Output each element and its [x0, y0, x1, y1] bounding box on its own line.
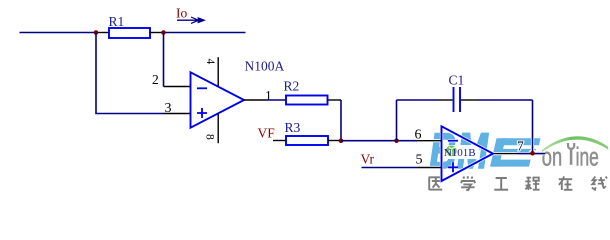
svg-text:R2: R2: [284, 79, 300, 94]
op-amp B minus symbol: [448, 140, 458, 142]
svg-text:C1: C1: [449, 73, 465, 88]
wire: C1 right pin: [461, 99, 477, 101]
wire: pin 5 black segment: [417, 167, 442, 169]
wire: top input horizontal: [20, 32, 97, 34]
wire: left branch down from node 1: [96, 33, 164, 114]
wire: feedback top left: [397, 99, 438, 101]
svg-text:N100A: N100A: [245, 59, 285, 74]
svg-text:3: 3: [165, 101, 172, 116]
svg-text:ine: ine: [576, 141, 599, 171]
watermark green swoosh arc: [542, 136, 609, 152]
wire: pin 3 black segment: [164, 113, 192, 115]
current arrow Io: [177, 17, 205, 23]
watermark chinese char 4 (cheng): [525, 177, 539, 190]
junction node R2/R3: [339, 138, 344, 143]
op-amp A minus symbol: [197, 87, 207, 89]
junction node right of R1: [161, 30, 166, 35]
wire: R1 right pin: [150, 32, 164, 34]
wire: pin 6 black segment: [417, 140, 442, 142]
svg-text:6: 6: [415, 128, 422, 143]
svg-text:8: 8: [204, 134, 216, 140]
op-amp U1 triangle N100A: [191, 72, 245, 127]
wire: R2 right pin: [328, 99, 342, 101]
svg-text:2: 2: [152, 72, 159, 87]
watermark wrench icon: [568, 143, 574, 165]
svg-text:VF: VF: [258, 126, 276, 141]
junction node left of R1: [94, 30, 99, 35]
power pin 8 line: [217, 113, 219, 143]
wire: pin 1 output black segment: [244, 99, 268, 101]
wire: VF stub to R3: [273, 140, 286, 142]
watermark chinese char 3 (gong): [494, 178, 508, 190]
watermark BME logo text: [430, 123, 541, 179]
watermark chinese char 5 (zai): [559, 176, 573, 190]
resistor R2: [286, 96, 328, 105]
wire: node to feedback node: [341, 140, 417, 142]
wire: C1 left pin: [438, 99, 453, 101]
power pin 4 line: [217, 57, 219, 86]
svg-text:N101B: N101B: [444, 147, 476, 159]
svg-text:R3: R3: [285, 120, 301, 135]
wire: Vr input horizontal: [362, 167, 418, 169]
watermark chinese char 1 (yi): [429, 177, 443, 190]
wire: pin 2 black segment: [164, 86, 192, 88]
resistor R3: [286, 136, 328, 145]
watermark chinese char 2 (xue): [461, 176, 475, 190]
wire: feedback vertical down to output: [532, 100, 534, 154]
wire: pin 7 output black segment: [493, 153, 518, 155]
junction node output: [530, 151, 535, 156]
op-amp A plus symbol: [197, 108, 207, 118]
watermark online text: [542, 141, 599, 171]
white casing under circuit over watermark: [337, 100, 545, 181]
watermark chinese char 6 (xian): [592, 177, 607, 190]
svg-text:on: on: [542, 141, 562, 171]
wire: feedback top right: [477, 99, 533, 101]
wire: down from node 2: [163, 33, 165, 87]
svg-text:R1: R1: [109, 14, 125, 29]
wire: output stub: [518, 153, 546, 155]
wire: top output horizontal: [164, 32, 246, 34]
svg-text:Vr: Vr: [361, 152, 375, 167]
svg-text:7: 7: [517, 139, 524, 154]
op-amp B plus symbol: [448, 162, 458, 172]
svg-text:Io: Io: [176, 6, 187, 21]
wire: R1 left pin: [96, 32, 109, 34]
svg-text:5: 5: [416, 153, 423, 168]
capacitor C1 plates: [454, 87, 461, 112]
svg-text:4: 4: [204, 59, 216, 65]
junction node feedback: [394, 138, 399, 143]
wire: feedback vertical up: [396, 100, 398, 141]
op-amp U2 triangle N101B: [442, 126, 494, 181]
wire: R3 right pin: [328, 140, 341, 142]
wire: output to R2: [268, 99, 286, 101]
resistor R1: [109, 28, 150, 38]
watermark green leaf icon: [446, 145, 457, 156]
wire: vertical R2 to node: [340, 100, 342, 141]
